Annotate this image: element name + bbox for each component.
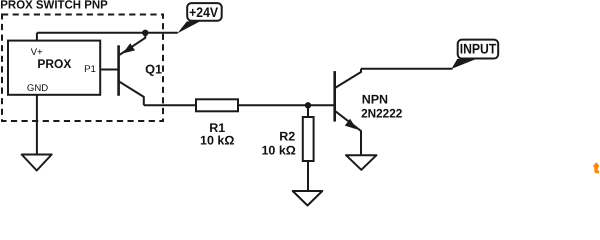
label Q1	[145, 62, 162, 76]
svg-text:INPUT: INPUT	[460, 40, 497, 56]
label R2	[279, 130, 295, 144]
transistor Q1 PNP	[100, 33, 145, 106]
svg-text:PROX SWITCH PNP: PROX SWITCH PNP	[0, 0, 108, 11]
value label 10 kΩ (R1)	[200, 134, 234, 148]
Q1 base wire from P1	[100, 69, 119, 71]
pin label V+	[31, 47, 43, 58]
Q1 base bar	[117, 45, 120, 96]
ground symbol under PROX GND	[22, 155, 52, 171]
junction dot at Q1 emitter tap	[142, 30, 148, 36]
dashed enclosure box PROX SWITCH PNP	[2, 15, 163, 122]
Q1 collector lead	[119, 81, 144, 105]
wire R2 to ground	[307, 161, 309, 191]
label PROX	[37, 57, 72, 71]
resistor R1	[196, 99, 238, 111]
wire Q1 collector to R1	[144, 104, 196, 106]
svg-text:PROX: PROX	[37, 57, 72, 71]
label NPN	[362, 92, 388, 106]
svg-text:10 kΩ: 10 kΩ	[261, 143, 295, 157]
wire V+ riser to +24V rail	[36, 33, 38, 41]
svg-text:P1: P1	[84, 64, 96, 75]
label PROX SWITCH PNP	[0, 0, 108, 11]
net flag INPUT	[452, 40, 499, 69]
NPN emitter lead	[336, 111, 362, 155]
Q1 emitter lead	[120, 33, 146, 55]
svg-text:+24V: +24V	[189, 5, 219, 20]
NPN base bar	[333, 71, 336, 122]
Q1 emitter arrowhead (points toward base, PNP)	[123, 43, 135, 53]
pin label GND	[27, 83, 48, 94]
wire NPN collector to INPUT flag	[361, 68, 453, 70]
net flag +24V	[177, 3, 221, 33]
pin label P1	[84, 64, 96, 75]
svg-text:NPN: NPN	[362, 92, 388, 106]
svg-text:2N2222: 2N2222	[361, 107, 402, 121]
watermark t (clipped logo)	[594, 160, 599, 175]
svg-text:R2: R2	[279, 130, 295, 144]
label R1	[209, 121, 225, 135]
prox sensor module box	[8, 41, 100, 95]
resistor R2	[303, 117, 314, 161]
ground symbol under R2	[293, 191, 323, 206]
wire +24V rail	[37, 32, 178, 34]
svg-text:GND: GND	[27, 83, 48, 94]
wire PROX GND to ground	[36, 95, 38, 155]
svg-text:Q1: Q1	[145, 62, 162, 76]
label 2N2222	[361, 107, 402, 121]
NPN collector lead	[336, 69, 362, 88]
svg-text:t: t	[594, 160, 599, 175]
transistor Q2 NPN 2N2222	[335, 69, 361, 155]
value label 10 kΩ (R2)	[261, 143, 295, 157]
wire junction to R2	[307, 105, 309, 117]
ground symbol under NPN emitter	[346, 155, 377, 170]
svg-text:10 kΩ: 10 kΩ	[200, 134, 234, 148]
junction dot node at R2 tap	[305, 102, 311, 108]
NPN emitter arrowhead (points away from base, NPN)	[345, 119, 357, 130]
wire R1 to NPN base	[238, 104, 335, 106]
